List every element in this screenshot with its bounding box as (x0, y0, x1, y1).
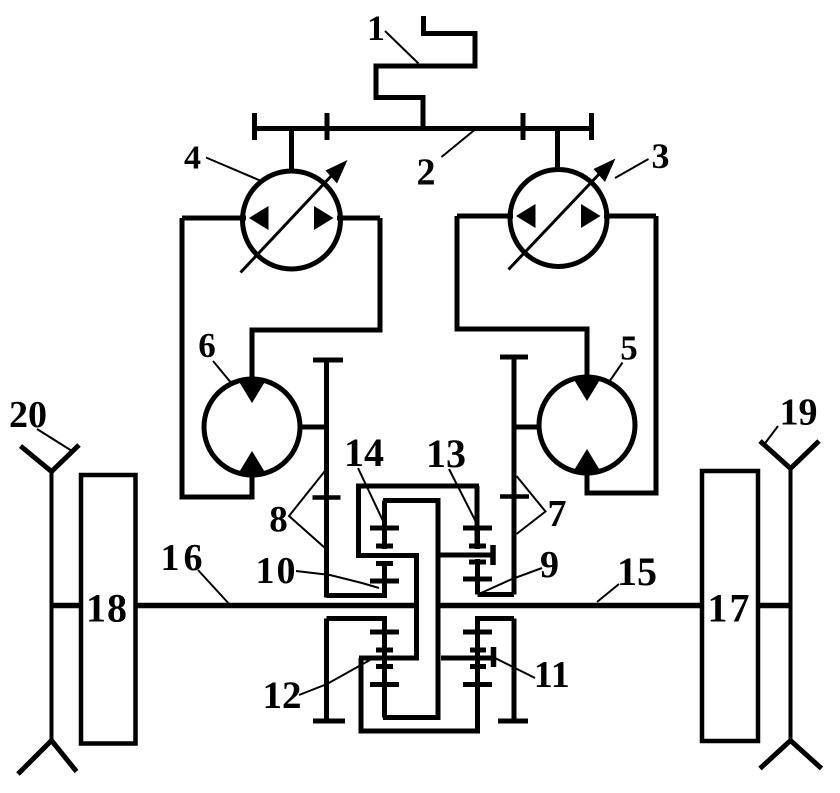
inner member right vertical (436, 501, 441, 718)
motor 6 bottom triangle (238, 451, 266, 474)
svg-text:15: 15 (617, 549, 657, 594)
gear 9 narrow cap (469, 560, 486, 565)
outer member lower-left vertical (359, 658, 364, 731)
gear 9 stem (475, 559, 480, 595)
wire: pump 4 right port (337, 216, 380, 221)
shaft 8 bottom T bar (313, 719, 345, 724)
inner member bottom bar (383, 715, 441, 720)
wire: shaft 8 lower bracket (327, 616, 388, 621)
wire: left inner hydraulic loop (252, 218, 380, 379)
wire: pump 3 input shaft (555, 129, 560, 171)
main axle 16 (left) (51, 603, 81, 609)
pump 3 right flow triangle (581, 204, 601, 228)
pump 4 right flow triangle (314, 206, 334, 230)
leader 6 (213, 361, 233, 385)
gear 12 stem (382, 619, 387, 718)
gear 11 lower narrow bar (470, 664, 486, 669)
gear 10 stem (382, 561, 387, 596)
gear 12 lower wide bar (370, 682, 399, 687)
wire: shaft 7 lower bracket (475, 616, 514, 621)
lower stub shaft with end cap (441, 656, 492, 661)
pump 4 left flow triangle (249, 206, 269, 230)
inner gear frame member: top bar (383, 498, 441, 503)
wire: shaft 8 to gear 10 link (327, 593, 388, 598)
shaft 2 tick left (325, 113, 330, 140)
left track symbol 20 (50, 472, 54, 741)
leader 15 (597, 584, 619, 602)
gear 10 narrow cap (376, 561, 393, 566)
gear 13 stem (475, 528, 480, 549)
wire: right inner hydraulic loop (457, 216, 587, 377)
motor 6 top triangle (238, 380, 266, 403)
leader 7 (double) (517, 476, 546, 534)
gear 14 stem (382, 501, 387, 550)
outer member bottom bar (359, 729, 481, 734)
wire: gear 9 to shaft 7 link (478, 592, 515, 597)
svg-text:4: 4 (184, 140, 201, 177)
motor 5 circle (539, 377, 635, 473)
svg-text:18: 18 (86, 586, 127, 631)
gear 12 narrow bar (376, 648, 393, 653)
solid symbols (238, 159, 616, 475)
leader 16 (198, 570, 231, 606)
right track symbol 19 (789, 469, 793, 741)
wire: left outer hydraulic loop (182, 218, 252, 497)
wheel 17 (702, 471, 758, 741)
wire: pump 4 input shaft (289, 129, 294, 173)
svg-text:8: 8 (269, 500, 288, 541)
svg-text:1: 1 (367, 8, 385, 48)
pump 3 left flow triangle (516, 204, 536, 228)
leader 10 (296, 571, 379, 588)
shaft 7 bottom T bar (498, 719, 528, 724)
leader 13 (449, 469, 477, 524)
gear 13 narrow bar (469, 544, 486, 549)
leader 8 (double) (289, 469, 327, 548)
gear 13 wide bar (463, 526, 492, 531)
engine crank 1 (376, 16, 475, 131)
pump 3 circle (510, 170, 607, 267)
svg-text:19: 19 (780, 392, 818, 434)
leader 5 (608, 363, 623, 384)
leader 3 (615, 159, 649, 178)
pump 3 arrow shaft (509, 171, 603, 270)
motor 5 top triangle (573, 378, 601, 401)
gear 9 wide bar (463, 577, 492, 582)
motor 6 circle (204, 379, 300, 475)
gear 11 wide bar (463, 630, 492, 635)
shaft 8 bearing tick (313, 495, 341, 500)
outer member left vertical (356, 486, 361, 556)
pump 3 arrow head (594, 159, 616, 183)
gear 14 narrow bar (376, 544, 393, 549)
outer member mid bar (356, 553, 419, 558)
leader 12 (299, 660, 370, 695)
pump 4 arrow shaft (241, 173, 335, 273)
shaft 2 tick right (521, 113, 526, 140)
gear 11 narrow bar (470, 648, 486, 653)
svg-text:14: 14 (344, 430, 384, 475)
leader 11 (495, 658, 535, 678)
svg-text:6: 6 (198, 326, 216, 365)
leader 14 (358, 468, 384, 523)
leader 2 (442, 128, 478, 158)
svg-text:12: 12 (263, 674, 302, 717)
leader 9 (481, 568, 542, 593)
svg-text:2: 2 (417, 152, 436, 194)
pump 4 arrow head (326, 160, 348, 184)
svg-text:7: 7 (548, 493, 567, 535)
gear 14 wide bar (370, 526, 399, 531)
wire: pump 4 left port (182, 216, 246, 221)
shaft 7 bearing tick (500, 494, 529, 499)
wire: motor 6 output (300, 425, 327, 430)
upper stub shaft with end cap (440, 553, 491, 558)
thin leader lines (37, 31, 778, 695)
pump 4 circle (243, 171, 341, 269)
svg-text:9: 9 (540, 544, 559, 586)
outer member mid vertical (414, 556, 419, 659)
gear 11 lower wide bar (463, 682, 492, 687)
leader 1 (385, 31, 419, 64)
shaft 2 (253, 126, 593, 131)
shaft 8 top T bar (313, 358, 343, 363)
shaft 8 vertical (324, 360, 329, 598)
variable displacement arrows (241, 171, 603, 273)
wheel 18 (81, 475, 136, 744)
wire: motor 5 output (514, 425, 539, 430)
shaft 7 top T bar (500, 355, 528, 360)
svg-text:11: 11 (534, 654, 570, 696)
shaft 2 left end bar (252, 113, 257, 140)
svg-text:13: 13 (426, 431, 466, 476)
shaft 7 vertical (512, 357, 517, 595)
wire: pump 3 right port (604, 214, 656, 219)
wire: right outer hydraulic loop (587, 216, 656, 493)
leader 20 (37, 429, 72, 451)
gear 10 wide bar (370, 579, 399, 584)
gear 12 lower narrow bar (376, 664, 393, 669)
gear 11 stem (475, 619, 480, 732)
leader 4 (206, 158, 260, 181)
leader 19 (763, 426, 778, 446)
svg-text:5: 5 (620, 329, 638, 368)
outer member right vertical (gear 13 hanger) (475, 486, 480, 549)
main axle 15 (right) (440, 603, 702, 609)
svg-text:20: 20 (9, 394, 47, 436)
outer gear frame member: top bar (356, 484, 479, 489)
shaft 2 right end bar (589, 113, 594, 140)
svg-text:3: 3 (652, 136, 670, 176)
outer member lower bar (359, 656, 419, 661)
gear 12 wide bar (370, 630, 399, 635)
motor 5 bottom triangle (573, 449, 601, 472)
wire: pump 3 left port (457, 214, 513, 219)
